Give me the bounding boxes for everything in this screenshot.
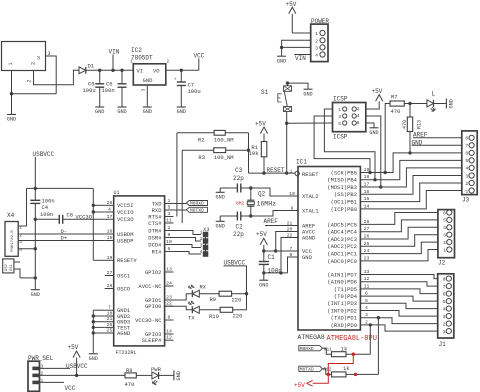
svg-text:R13: R13 — [417, 120, 423, 129]
svg-text:100n: 100n — [268, 268, 283, 275]
svg-text:17: 17 — [364, 182, 370, 188]
svg-text:4: 4 — [315, 53, 318, 59]
svg-text:IC2: IC2 — [131, 47, 142, 54]
svg-text:+5V: +5V — [372, 88, 383, 95]
net flag +5V red — [294, 380, 313, 388]
svg-text:18: 18 — [107, 311, 113, 317]
ground USB — [31, 290, 40, 298]
svg-text:6: 6 — [465, 151, 468, 157]
wire PC0 to J2 pin1 — [360, 250, 438, 261]
wire PD7 to J1 pin8 — [360, 275, 437, 279]
wire VCC5I — [93, 204, 104, 206]
ground C3 — [216, 188, 225, 201]
svg-text:1: 1 — [130, 59, 133, 65]
node R7 SCK junction — [384, 171, 387, 174]
svg-text:(AIN1)PD7: (AIN1)PD7 — [327, 271, 357, 278]
svg-text:(INT0)PD2: (INT0)PD2 — [327, 307, 357, 314]
resistor R9 220 — [210, 291, 247, 303]
svg-text:100u: 100u — [83, 87, 96, 94]
svg-text:ICSP: ICSP — [333, 96, 348, 103]
svg-text:1: 1 — [443, 329, 446, 335]
svg-text:15: 15 — [107, 235, 113, 241]
svg-text:R10: R10 — [209, 313, 219, 320]
ground POWER — [277, 56, 286, 64]
wire reset rail — [249, 172, 296, 174]
wire ICSP pin3 SCK — [314, 116, 370, 173]
ground ICSP — [369, 128, 378, 136]
node agnd junction — [92, 331, 95, 334]
wire PD4 to J1 pin5 — [360, 296, 437, 301]
svg-text:DCD#: DCD# — [148, 241, 162, 248]
svg-text:470: 470 — [391, 108, 401, 115]
net label VCC — [194, 53, 205, 71]
svg-text:16: 16 — [364, 189, 370, 195]
wire PD2 to J1 pin3 — [360, 311, 437, 317]
node C4 junction — [34, 187, 37, 190]
wire POWER gnd stub — [281, 47, 283, 56]
node crystal bottom junction — [249, 214, 252, 217]
svg-text:8: 8 — [168, 315, 171, 321]
node VCCIO junction — [92, 210, 95, 213]
svg-text:20: 20 — [107, 200, 113, 206]
svg-text:VCC3O: VCC3O — [76, 214, 93, 221]
svg-text:GND: GND — [117, 109, 126, 115]
node VCC5I junction — [92, 204, 95, 207]
wire AVCC — [276, 232, 298, 252]
svg-text:22p: 22p — [233, 175, 244, 182]
svg-text:XTAL2: XTAL2 — [302, 193, 319, 200]
wire POWER pin3 — [282, 46, 311, 48]
svg-text:GND: GND — [369, 130, 378, 136]
ground U1 — [89, 354, 98, 362]
capacitor C6 — [83, 70, 105, 107]
svg-text:22p: 22p — [233, 231, 244, 238]
svg-text:C4: C4 — [42, 204, 49, 211]
wire PB2 to J3 pin3 — [360, 176, 461, 195]
svg-text:16: 16 — [107, 229, 113, 235]
svg-text:GND: GND — [143, 109, 152, 115]
svg-text:(ADC2)PC2: (ADC2)PC2 — [327, 243, 357, 250]
node X4 pin4 junction — [34, 247, 37, 250]
svg-text:(MISO)PB4: (MISO)PB4 — [327, 177, 357, 184]
svg-text:VCCIO: VCCIO — [117, 209, 134, 216]
wire PB5 to J3 pin6 — [360, 153, 461, 173]
wire jack pin3 to gnd rail — [46, 56, 57, 94]
wire R2R3 vertical — [248, 133, 250, 173]
wire IC1 gnd pin — [264, 257, 298, 273]
svg-text:13: 13 — [166, 267, 172, 273]
wire GPIO1 to RX — [165, 294, 193, 300]
net label VIN — [109, 49, 120, 71]
label ATMEGA8 — [298, 334, 325, 341]
svg-text:(T1)PD5: (T1)PD5 — [334, 286, 357, 293]
net flag M8TXD — [165, 207, 208, 213]
svg-text:3: 3 — [465, 173, 468, 179]
svg-text:VCC3O-NC: VCC3O-NC — [135, 317, 162, 324]
node SCK junction — [368, 171, 371, 174]
svg-text:SLEEP#: SLEEP# — [142, 337, 163, 344]
net flag M8RXD bottom — [299, 346, 332, 355]
svg-text:11: 11 — [364, 283, 370, 289]
node R3 right junction — [247, 149, 250, 152]
svg-text:3: 3 — [19, 239, 22, 245]
svg-text:25: 25 — [107, 328, 113, 334]
svg-text:25: 25 — [364, 241, 370, 247]
led RX — [189, 284, 219, 298]
node shield junction — [34, 276, 37, 279]
svg-text:100_NM: 100_NM — [214, 136, 234, 143]
net label VIN at POWER — [295, 55, 306, 62]
resistor R11 1k — [324, 346, 371, 357]
svg-text:(ADC0)PC0: (ADC0)PC0 — [327, 258, 357, 265]
svg-text:6: 6 — [443, 210, 446, 216]
wire VIN rail — [86, 69, 134, 71]
svg-text:R12: R12 — [323, 366, 332, 372]
svg-text:21: 21 — [107, 316, 113, 322]
diode D1 — [79, 63, 95, 74]
svg-text:3: 3 — [37, 56, 40, 62]
node C7 junction — [180, 69, 183, 72]
resistor R13 470 — [402, 104, 423, 153]
svg-text:7: 7 — [465, 143, 468, 149]
node AGND junction — [279, 271, 282, 274]
svg-text:27: 27 — [364, 226, 370, 232]
node C5 junction — [120, 69, 123, 72]
svg-text:1k: 1k — [343, 365, 350, 372]
svg-text:D1: D1 — [88, 63, 95, 70]
svg-text:17: 17 — [107, 214, 113, 220]
svg-text:470: 470 — [402, 120, 408, 129]
svg-text:(ADC5)PC5: (ADC5)PC5 — [327, 221, 357, 228]
node AVCC junction — [274, 249, 277, 252]
svg-text:3: 3 — [443, 314, 446, 320]
wire USBVCC to U1 — [92, 188, 94, 260]
svg-text:RI#: RI# — [152, 248, 163, 255]
node LED node junction — [408, 102, 411, 105]
wire IC1 reset pin — [295, 171, 299, 175]
svg-text:+5V: +5V — [286, 1, 297, 8]
svg-text:R8: R8 — [126, 367, 133, 374]
net label AREF IC1 — [264, 218, 299, 226]
svg-text:AREF: AREF — [264, 218, 279, 225]
svg-text:1k: 1k — [341, 346, 348, 353]
wire PD3 to J1 pin4 — [360, 303, 437, 308]
svg-text:OSC1: OSC1 — [117, 272, 131, 279]
wire R2 to RTS — [176, 133, 178, 217]
svg-text:7: 7 — [443, 284, 446, 290]
svg-text:OSCO: OSCO — [117, 285, 131, 292]
power jack X1 — [2, 42, 51, 83]
wire ICSP pin5 RESET — [287, 122, 333, 124]
svg-text:L: L — [432, 91, 436, 98]
svg-text:3: 3 — [315, 45, 318, 51]
wire X4 pin4 gnd — [18, 248, 35, 250]
svg-text:2: 2 — [357, 106, 360, 112]
svg-text:8: 8 — [443, 276, 446, 282]
ground jack — [7, 115, 16, 123]
capacitor C5 — [102, 70, 127, 107]
svg-text:13: 13 — [364, 269, 370, 275]
svg-text:3: 3 — [365, 312, 368, 318]
svg-text:12: 12 — [166, 335, 172, 341]
net label RESET — [267, 167, 285, 174]
svg-text:M8RXD: M8RXD — [190, 201, 204, 207]
svg-text:2: 2 — [27, 79, 33, 82]
svg-text:(ICP)PB0: (ICP)PB0 — [331, 206, 357, 213]
svg-text:USBVCC: USBVCC — [33, 151, 55, 158]
resistor R1 10k — [249, 120, 268, 173]
svg-text:J2: J2 — [438, 260, 446, 267]
svg-text:4: 4 — [19, 247, 22, 253]
wire PB4 to J3 pin5 — [360, 160, 461, 179]
regulator IC2 7805DT — [130, 47, 169, 91]
svg-text:2: 2 — [365, 319, 368, 325]
led PWR — [151, 366, 174, 385]
wire U1 gnd bundle — [93, 310, 104, 353]
ground C7 — [177, 107, 186, 115]
svg-text:5: 5 — [365, 298, 368, 304]
svg-text:28: 28 — [364, 219, 370, 225]
svg-text:5: 5 — [338, 121, 341, 127]
capacitor C4 100n — [30, 188, 54, 289]
svg-text:19: 19 — [107, 255, 113, 261]
svg-text:GND: GND — [302, 254, 313, 261]
svg-text:GND: GND — [216, 195, 225, 201]
svg-text:USBDP: USBDP — [117, 237, 134, 244]
svg-text:1: 1 — [338, 107, 341, 113]
svg-text:+: + — [174, 78, 177, 83]
svg-text:J1: J1 — [439, 341, 447, 348]
svg-text:8: 8 — [465, 136, 468, 142]
wire PB1 to J3 pin2 — [360, 183, 461, 202]
svg-text:VCC: VCC — [194, 53, 205, 60]
wire PC4 to J2 pin5 — [360, 220, 438, 232]
svg-text:6: 6 — [357, 120, 360, 126]
svg-text:24: 24 — [364, 248, 370, 254]
resistor R8 470 — [125, 367, 152, 388]
svg-text:7805DT: 7805DT — [131, 55, 153, 62]
svg-text:24: 24 — [166, 281, 172, 287]
svg-text:(ADC4)PC4: (ADC4)PC4 — [327, 229, 357, 236]
svg-text:Q2: Q2 — [258, 191, 266, 198]
wire PC2 to J2 pin3 — [360, 235, 438, 247]
svg-text:VI: VI — [137, 67, 144, 74]
svg-text:8M2: 8M2 — [236, 200, 244, 206]
usb shield GS — [3, 259, 36, 278]
svg-text:11: 11 — [166, 218, 172, 224]
node crystal top junction — [249, 186, 252, 189]
wire PD0 to J1 pin1 — [360, 325, 437, 331]
wire ICSP pin2 +5V — [366, 88, 383, 109]
svg-text:19: 19 — [364, 167, 370, 173]
svg-text:(OC1)PB1: (OC1)PB1 — [331, 199, 358, 206]
resistor R10 220 — [209, 307, 247, 320]
ground C5 — [117, 107, 126, 115]
ground LED L rotated — [446, 99, 454, 109]
net label USBVCC — [33, 151, 55, 188]
wire PD6 to J1 pin7 — [360, 282, 437, 286]
node MOSI junction — [379, 185, 382, 188]
wire GPIO0 to TX — [165, 306, 193, 310]
svg-text:10k: 10k — [249, 150, 260, 157]
node C8 gnd junction — [34, 218, 37, 221]
svg-text:5: 5 — [443, 299, 446, 305]
header ICSP — [333, 96, 366, 141]
svg-text:18: 18 — [364, 174, 370, 180]
wire IC2 gnd pin — [146, 85, 148, 107]
svg-text:GND: GND — [303, 91, 312, 97]
svg-text:23: 23 — [364, 255, 370, 261]
wire PWR_SEL pin2 — [40, 374, 126, 376]
wire R7 to LED — [404, 103, 427, 105]
svg-text:R9: R9 — [210, 296, 217, 303]
svg-text:2: 2 — [19, 232, 22, 238]
svg-text:16MHz: 16MHz — [257, 200, 277, 207]
wire RI to X3 pin4 — [165, 252, 201, 255]
svg-text:M8RXD: M8RXD — [300, 346, 314, 352]
svg-text:1: 1 — [8, 62, 14, 65]
svg-text:(TXD)PD1: (TXD)PD1 — [331, 315, 358, 322]
led TX — [188, 301, 220, 322]
wire PB0 to J3 pin1 — [360, 191, 461, 209]
header POWER — [311, 18, 330, 62]
wire PD1 to J1 pin2 — [360, 318, 437, 324]
wire R7 to SCK — [385, 104, 390, 173]
svg-text:220: 220 — [233, 313, 243, 320]
ground C1 — [259, 280, 268, 288]
svg-text:C8: C8 — [67, 212, 74, 219]
node red R12 left junction — [327, 373, 330, 376]
wire ICSP pin6 gnd — [366, 123, 374, 128]
svg-text:(INT1)PD3: (INT1)PD3 — [327, 300, 357, 307]
svg-text:6: 6 — [443, 291, 446, 297]
svg-text:3: 3 — [443, 233, 446, 239]
capacitor C8 100n — [35, 211, 104, 224]
svg-text:S1: S1 — [261, 89, 269, 96]
node gnd2 junction — [92, 314, 95, 317]
svg-text:4: 4 — [365, 305, 368, 311]
svg-text:(SS)PB2: (SS)PB2 — [334, 191, 357, 198]
+5V arrow pwr — [68, 344, 81, 375]
svg-text:RESET#: RESET# — [117, 257, 138, 264]
header J2 — [438, 210, 455, 267]
node ICSP reset junction — [285, 122, 288, 125]
svg-text:(T0)PD4: (T0)PD4 — [334, 293, 358, 300]
svg-text:AVCC-NC: AVCC-NC — [138, 283, 162, 290]
pin stubs U1 left — [105, 200, 114, 334]
ground C6 — [95, 107, 104, 115]
node R12 red junction — [354, 373, 357, 376]
svg-text:GND: GND — [277, 58, 286, 64]
svg-text:14: 14 — [364, 203, 370, 209]
svg-text:TX: TX — [188, 315, 195, 322]
capacitor C3 22p — [220, 167, 251, 193]
node R11 red junction — [352, 353, 355, 356]
svg-text:RESET: RESET — [302, 171, 319, 178]
wire USBVCC rail — [27, 187, 94, 189]
svg-text:1: 1 — [19, 224, 22, 230]
header J1 — [438, 274, 454, 348]
svg-text:1: 1 — [443, 247, 446, 253]
node PD0 junction — [369, 323, 372, 326]
svg-text:(MOSI)PB3: (MOSI)PB3 — [327, 184, 357, 191]
svg-text:14: 14 — [166, 329, 172, 335]
svg-text:26: 26 — [364, 234, 370, 240]
svg-text:1: 1 — [290, 168, 293, 174]
wire VCC IC1 — [264, 250, 298, 252]
svg-text:VO: VO — [153, 67, 160, 74]
wire DTR to X3 pin1 — [165, 231, 201, 235]
wire jack pin2 to diode — [34, 70, 80, 84]
net label GND J3 — [412, 140, 462, 147]
svg-text:IC1: IC1 — [296, 159, 307, 166]
pin stubs U1 right — [165, 198, 174, 341]
node PD1 junction — [377, 316, 380, 319]
wire PC5 to J2 pin6 — [360, 213, 438, 225]
svg-text:PN61729-B: PN61729-B — [11, 230, 15, 252]
svg-text:CTS#: CTS# — [148, 220, 162, 227]
node C1 gnd junction — [262, 271, 265, 274]
svg-text:VIN: VIN — [295, 55, 306, 62]
ic U1 FT232RL body — [114, 190, 165, 356]
wire ICSP pin1 MISO — [324, 109, 375, 180]
node R13 bottom junction — [408, 151, 411, 154]
svg-text:+5V: +5V — [255, 120, 266, 127]
node +5V pwr junction — [75, 374, 78, 377]
ic IC1 ATMEGA8 body — [296, 159, 360, 331]
svg-text:2: 2 — [443, 240, 446, 246]
svg-text:R3: R3 — [198, 154, 205, 161]
svg-text:470: 470 — [125, 381, 135, 388]
svg-text:6: 6 — [365, 291, 368, 297]
wire red +5V — [313, 354, 354, 383]
svg-text:2: 2 — [166, 59, 169, 65]
wire PB3 to J3 pin4 — [360, 168, 461, 187]
svg-text:ICSP: ICSP — [333, 134, 348, 141]
svg-text:GND: GND — [177, 109, 186, 115]
wire R3 to CTS — [181, 150, 183, 223]
wire POWER pin4 — [294, 54, 311, 56]
svg-text:R7: R7 — [391, 93, 398, 100]
node test junction — [92, 326, 95, 329]
power +5V arrow — [286, 1, 297, 33]
svg-text:(ADC3)PC3: (ADC3)PC3 — [327, 236, 357, 243]
wire POWER pin2 — [282, 40, 311, 47]
svg-text:GND: GND — [449, 99, 455, 108]
node R1 bottom junction — [262, 171, 265, 174]
svg-text:4: 4 — [108, 207, 111, 213]
svg-text:RX: RX — [200, 284, 207, 291]
svg-text:+5V: +5V — [294, 382, 305, 389]
label ATMEGA8L-8PU red — [327, 335, 377, 343]
wire X4 pin1 — [18, 188, 26, 226]
svg-text:(AIN0)PD6: (AIN0)PD6 — [327, 279, 357, 286]
svg-text:100n: 100n — [102, 87, 115, 94]
svg-text:ATMEGA8L-8PU: ATMEGA8L-8PU — [327, 335, 377, 343]
svg-text:100n: 100n — [40, 211, 53, 218]
svg-text:FT232RL: FT232RL — [116, 350, 137, 356]
node POWER gnd junction — [280, 46, 283, 49]
wire PD5 to J1 pin6 — [360, 289, 437, 294]
wire gnd rail — [12, 93, 57, 95]
wire +5V to POWER pin1 — [292, 32, 310, 34]
svg-text:J3: J3 — [462, 197, 470, 204]
resistor R2 100_NM — [177, 130, 249, 143]
ground PWR led rotated — [174, 370, 182, 380]
wire ICSP pin4 MOSI — [366, 116, 381, 187]
svg-text:15: 15 — [364, 196, 370, 202]
svg-text:3: 3 — [168, 211, 171, 217]
